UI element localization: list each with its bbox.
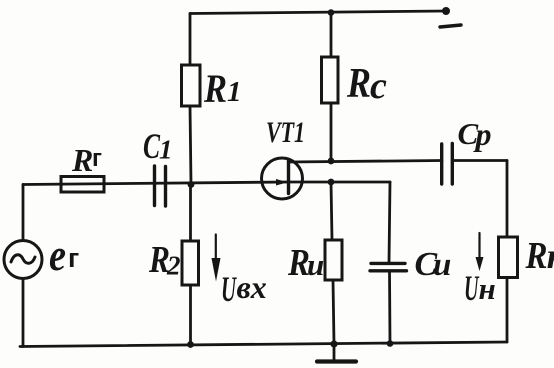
svg-text:VT1: VT1 xyxy=(266,116,305,149)
svg-text:и: и xyxy=(307,247,324,282)
wire bottom rail xyxy=(20,342,507,347)
svg-text:R: R xyxy=(346,61,371,107)
ground xyxy=(333,344,336,360)
capacitor Ci xyxy=(371,262,405,265)
wire main gate line xyxy=(23,182,288,185)
svg-text:1: 1 xyxy=(159,135,173,165)
node bottom Ri junction xyxy=(330,340,337,347)
resistor R1 xyxy=(182,65,201,106)
wire R1 bottom xyxy=(190,106,191,184)
svg-text:и: и xyxy=(433,247,451,283)
node drain junction xyxy=(328,158,335,165)
svg-text:р: р xyxy=(473,116,492,152)
svg-text:R: R xyxy=(71,142,93,178)
arrow Uvx xyxy=(215,235,217,263)
resistor R2 xyxy=(182,241,199,285)
wire generator bottom xyxy=(22,279,25,347)
wire R2 bottom xyxy=(189,285,192,345)
label Rn xyxy=(525,235,554,277)
wire left corner vertical xyxy=(22,185,25,241)
label Rg xyxy=(71,142,102,178)
wire Ri bottom xyxy=(333,280,334,344)
transistor VT1 xyxy=(262,158,303,199)
node top rail junction xyxy=(328,9,335,16)
resistor Ri xyxy=(325,240,342,280)
label R1 xyxy=(203,66,241,111)
wire top rail xyxy=(190,11,446,14)
generator eg xyxy=(4,241,42,279)
label minus sign xyxy=(440,25,461,27)
svg-text:н: н xyxy=(547,236,554,276)
label VT1 xyxy=(266,116,305,149)
wire Cp to load xyxy=(452,159,507,162)
node bottom Ci junction xyxy=(387,340,394,347)
label R2 xyxy=(148,239,180,281)
node bottom R2 junction xyxy=(187,341,194,348)
label Ci xyxy=(415,246,452,283)
wire R1 top xyxy=(189,14,192,66)
wire Ri top xyxy=(331,182,332,240)
wire Ci bottom xyxy=(388,271,391,344)
resistor Rn xyxy=(499,237,518,278)
svg-text:н: н xyxy=(479,271,496,306)
node supply terminal xyxy=(442,7,450,15)
svg-text:2: 2 xyxy=(166,251,181,281)
wire Rc bottom xyxy=(330,103,333,161)
wire load vertical xyxy=(506,161,509,238)
capacitor Cp xyxy=(440,144,443,184)
label Un xyxy=(464,268,496,308)
svg-text:R: R xyxy=(203,66,227,111)
label C1 xyxy=(143,126,173,166)
resistor Rg xyxy=(61,177,104,193)
wire R2 top xyxy=(189,185,192,242)
label Rc xyxy=(346,61,387,107)
svg-text:R: R xyxy=(525,235,548,277)
svg-text:г: г xyxy=(92,145,102,172)
svg-text:U: U xyxy=(221,269,237,309)
wire Ci top xyxy=(389,182,390,263)
resistor Rc xyxy=(322,57,339,103)
svg-text:г: г xyxy=(68,243,79,273)
node source junction xyxy=(328,179,335,186)
node gate junction xyxy=(188,181,195,188)
label Ri xyxy=(287,242,324,284)
label Cp xyxy=(458,116,492,152)
svg-text:вх: вх xyxy=(237,269,267,305)
arrow Un xyxy=(478,233,480,260)
svg-text:1: 1 xyxy=(227,76,242,108)
label eg xyxy=(49,229,79,280)
wire Rn bottom xyxy=(506,278,509,343)
svg-text:U: U xyxy=(464,268,480,308)
wire Rc top xyxy=(330,13,333,58)
wire source line xyxy=(289,181,391,184)
svg-text:e: e xyxy=(49,229,66,280)
label Uvx xyxy=(221,269,267,309)
svg-text:c: c xyxy=(370,65,387,107)
capacitor C1 xyxy=(153,166,156,206)
wire drain line xyxy=(289,161,443,163)
